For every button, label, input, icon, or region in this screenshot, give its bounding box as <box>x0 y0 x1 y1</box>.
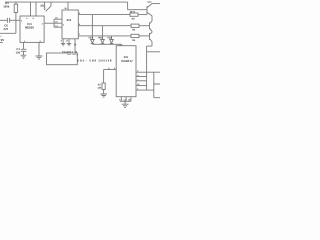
ground under IC1 pin5 <box>36 42 43 59</box>
node 9V supply terminals <box>0 20 16 42</box>
IC U3: IC5 CD4017 counter <box>116 46 136 97</box>
transistor VT2 <box>150 21 153 32</box>
resistor R3 <box>131 24 150 32</box>
svg-text:100: 100 <box>16 51 21 54</box>
svg-text:9V: 9V <box>1 38 5 42</box>
svg-text:13: 13 <box>66 40 68 43</box>
wire IC4 output row B, pin 4 <box>78 23 131 26</box>
wire IC1 top pins to rail <box>31 2 37 16</box>
ground under R7 <box>100 94 107 97</box>
svg-text:8: 8 <box>61 40 62 43</box>
diode VD1 <box>88 15 94 45</box>
wire right bus <box>146 52 148 90</box>
IC U2: IC4 counter <box>62 10 78 39</box>
node IC1 pin numbers <box>21 17 44 43</box>
ground IC4 pin8 <box>61 39 66 46</box>
svg-text:100k: 100k <box>3 5 10 9</box>
svg-text:CD4017: CD4017 <box>121 59 133 63</box>
resistor R2 <box>130 11 147 21</box>
ground under C1 <box>21 55 27 58</box>
wire IC4 to module box, junction dot <box>74 39 76 53</box>
ground under IC5 <box>122 101 129 107</box>
capacitor C1 <box>16 42 27 55</box>
diode VD3 <box>107 36 113 44</box>
svg-text:CD4017: CD4017 <box>62 50 73 54</box>
wire VT3 emitter to bus <box>147 42 152 52</box>
resistor R4 <box>131 34 150 42</box>
svg-text:VD4 - VD9 1N4148: VD4 - VD9 1N4148 <box>77 58 112 62</box>
wire top rail left <box>5 1 128 3</box>
wire rail corner to VT1 base <box>128 2 147 10</box>
wire IC1 pin3 to IC4 inputs, pins 15/10/14 <box>44 17 62 28</box>
module CD4017 sound box <box>47 50 79 65</box>
wire diode cathode bus <box>92 44 121 47</box>
svg-text:VD2: VD2 <box>98 37 103 40</box>
resistor R1 <box>3 1 17 20</box>
svg-text:SB1: SB1 <box>40 5 46 8</box>
capacitor C6 <box>0 18 20 31</box>
svg-text:470: 470 <box>3 27 8 31</box>
background <box>0 0 160 110</box>
wire IC5 bottom pins <box>119 97 131 102</box>
svg-text:VD1: VD1 <box>88 37 93 40</box>
switch SB1 <box>40 2 51 11</box>
wire IC4 pin16 stub <box>64 2 68 10</box>
wire IC5 right pins <box>136 70 160 91</box>
node right edge connector <box>154 72 160 98</box>
wire IC4 output row A, pin 2 <box>78 12 130 15</box>
wire right output rail <box>147 51 160 53</box>
svg-text:NE555: NE555 <box>25 26 34 30</box>
wire IC5 pin5 + resistor R7 <box>97 67 116 94</box>
ground IC4 pin13 <box>66 39 72 46</box>
svg-text:VD3: VD3 <box>107 37 112 40</box>
svg-text:IC4: IC4 <box>67 18 72 22</box>
transistor VT3 <box>150 32 153 41</box>
wire IC4 output row C, pin 7 <box>78 33 131 36</box>
svg-text:1k×3: 1k×3 <box>130 11 136 14</box>
transistor VT1 <box>147 1 160 21</box>
IC U1: IC1 NE555 timer <box>20 16 44 42</box>
svg-text:13k: 13k <box>97 87 102 90</box>
diode VD2 <box>98 26 104 45</box>
